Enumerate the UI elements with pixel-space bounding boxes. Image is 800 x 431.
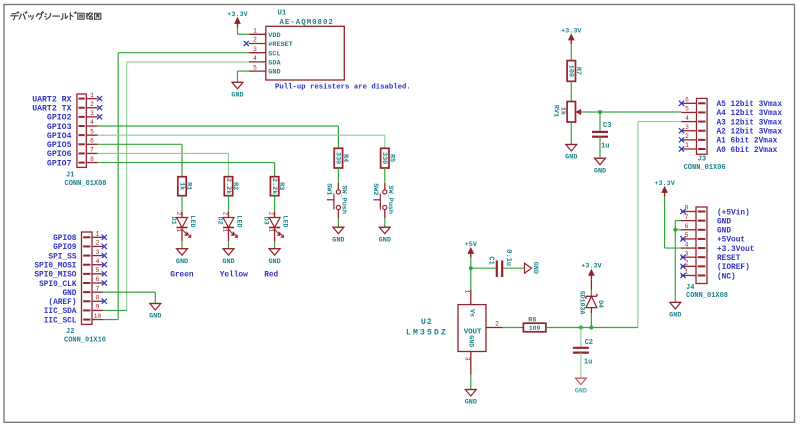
svg-text:3: 3 bbox=[253, 46, 257, 53]
svg-text:R2: R2 bbox=[231, 182, 239, 190]
svg-text:6: 6 bbox=[90, 138, 94, 145]
svg-text:J1: J1 bbox=[66, 172, 74, 180]
svg-text:C1: C1 bbox=[486, 256, 494, 264]
svg-text:GPIO8: GPIO8 bbox=[53, 235, 77, 243]
svg-text:GND: GND bbox=[594, 167, 606, 175]
svg-text:8: 8 bbox=[685, 205, 689, 212]
svg-text:1: 1 bbox=[96, 231, 100, 238]
svg-text:2: 2 bbox=[495, 320, 499, 327]
svg-text:CONN_01X08: CONN_01X08 bbox=[65, 180, 107, 188]
svg-text:5: 5 bbox=[96, 267, 100, 274]
svg-text:5: 5 bbox=[90, 128, 94, 135]
svg-text:GPIO4: GPIO4 bbox=[47, 132, 72, 141]
svg-text:IIC_SDA: IIC_SDA bbox=[44, 308, 77, 316]
svg-text:SPI0_CLK: SPI0_CLK bbox=[39, 281, 77, 289]
svg-text:(NC): (NC) bbox=[717, 273, 736, 281]
svg-text:6: 6 bbox=[685, 97, 689, 104]
svg-text:GND: GND bbox=[149, 313, 161, 321]
svg-text:A0 6bit 2Vmax: A0 6bit 2Vmax bbox=[717, 147, 778, 155]
svg-text:GND: GND bbox=[717, 228, 731, 236]
svg-text:C2: C2 bbox=[585, 339, 593, 347]
svg-text:SDA: SDA bbox=[268, 60, 281, 68]
svg-text:1u: 1u bbox=[601, 143, 609, 151]
svg-text:SPI0_MISO: SPI0_MISO bbox=[34, 272, 76, 280]
svg-text:CONN_01X10: CONN_01X10 bbox=[64, 337, 106, 345]
svg-text:2: 2 bbox=[685, 133, 689, 140]
svg-text:AE-AQM0802: AE-AQM0802 bbox=[280, 19, 334, 27]
svg-text:Yellow: Yellow bbox=[220, 272, 248, 280]
svg-text:4: 4 bbox=[96, 258, 100, 265]
svg-text:J3: J3 bbox=[698, 155, 706, 163]
svg-text:GND: GND bbox=[62, 290, 76, 298]
svg-text:A4 12bit 3Vmax: A4 12bit 3Vmax bbox=[717, 110, 783, 118]
svg-text:GND: GND bbox=[669, 312, 681, 320]
svg-text:R5: R5 bbox=[387, 154, 395, 162]
svg-text:330: 330 bbox=[380, 152, 388, 164]
svg-text:D3: D3 bbox=[261, 217, 269, 225]
svg-text:1u: 1u bbox=[584, 359, 592, 367]
svg-text:2: 2 bbox=[253, 37, 257, 44]
svg-text:(AREF): (AREF) bbox=[48, 299, 76, 307]
svg-text:100: 100 bbox=[529, 325, 541, 332]
svg-text:SD103A: SD103A bbox=[578, 291, 585, 315]
svg-text:IIC_SCL: IIC_SCL bbox=[44, 317, 77, 325]
svg-text:GND: GND bbox=[268, 69, 280, 77]
svg-text:100: 100 bbox=[567, 65, 575, 77]
svg-text:R7: R7 bbox=[574, 67, 582, 75]
svg-text:5: 5 bbox=[685, 232, 689, 239]
svg-text:GND: GND bbox=[717, 218, 731, 226]
svg-text:GPIO5: GPIO5 bbox=[47, 141, 72, 150]
svg-text:GND: GND bbox=[268, 258, 280, 266]
svg-text:8: 8 bbox=[96, 294, 100, 301]
svg-text:1: 1 bbox=[464, 290, 471, 294]
svg-text:R6: R6 bbox=[528, 317, 536, 325]
svg-text:R3: R3 bbox=[277, 182, 285, 190]
svg-text:A3 12bit 3Vmax: A3 12bit 3Vmax bbox=[717, 119, 783, 127]
svg-text:R4: R4 bbox=[341, 154, 349, 162]
svg-text:UART2 TX: UART2 TX bbox=[32, 105, 71, 114]
svg-text:U2: U2 bbox=[421, 318, 433, 327]
svg-text:D4: D4 bbox=[597, 300, 604, 308]
svg-text:+3.3V: +3.3V bbox=[581, 263, 602, 271]
svg-text:VDD: VDD bbox=[268, 32, 280, 40]
svg-text:8: 8 bbox=[90, 156, 94, 163]
svg-text:Pull-up resisters are disabled: Pull-up resisters are disabled. bbox=[275, 84, 411, 92]
svg-text:+5V: +5V bbox=[465, 241, 478, 249]
svg-text:3: 3 bbox=[464, 357, 471, 361]
svg-text:1: 1 bbox=[90, 92, 94, 99]
svg-text:D2: D2 bbox=[215, 217, 223, 225]
svg-text:SW_Push: SW_Push bbox=[340, 185, 348, 214]
svg-text:+3.3V: +3.3V bbox=[654, 180, 675, 188]
svg-text:R1: R1 bbox=[185, 182, 193, 190]
svg-text:(IOREF): (IOREF) bbox=[717, 264, 750, 272]
svg-text:C3: C3 bbox=[603, 122, 611, 130]
svg-text:2: 2 bbox=[221, 212, 228, 216]
svg-text:3: 3 bbox=[96, 249, 100, 256]
svg-text:#RESET: #RESET bbox=[268, 41, 292, 49]
svg-text:5: 5 bbox=[253, 64, 257, 71]
svg-text:7: 7 bbox=[96, 285, 100, 292]
svg-text:A2 12bit 3Vmax: A2 12bit 3Vmax bbox=[717, 129, 783, 137]
svg-text:GPIO2: GPIO2 bbox=[47, 114, 72, 123]
svg-text:4: 4 bbox=[90, 119, 94, 126]
svg-text:1: 1 bbox=[685, 142, 689, 149]
svg-text:4: 4 bbox=[685, 115, 689, 122]
svg-text:2: 2 bbox=[685, 260, 689, 267]
svg-text:GND: GND bbox=[231, 92, 243, 100]
svg-text:J4: J4 bbox=[686, 284, 694, 292]
svg-text:RESET: RESET bbox=[717, 255, 741, 263]
svg-text:10: 10 bbox=[94, 313, 102, 320]
svg-text:SW_Push: SW_Push bbox=[386, 185, 394, 214]
svg-text:UART2 RX: UART2 RX bbox=[32, 95, 71, 104]
svg-text:GPIO9: GPIO9 bbox=[53, 244, 77, 252]
svg-text:2: 2 bbox=[175, 212, 182, 216]
svg-text:1k: 1k bbox=[558, 107, 566, 115]
svg-text:+3.3Vout: +3.3Vout bbox=[717, 246, 754, 254]
svg-text:0.1u: 0.1u bbox=[504, 249, 512, 266]
svg-text:GND: GND bbox=[465, 399, 477, 407]
svg-text:A5 12bit 3Vmax: A5 12bit 3Vmax bbox=[717, 101, 783, 109]
svg-text:GPIO6: GPIO6 bbox=[47, 150, 72, 159]
svg-text:GND: GND bbox=[379, 236, 391, 244]
svg-text:6: 6 bbox=[96, 276, 100, 283]
svg-text:2: 2 bbox=[96, 240, 100, 247]
svg-text:GND: GND bbox=[575, 387, 587, 395]
svg-text:(+5Vin): (+5Vin) bbox=[717, 209, 750, 217]
svg-text:3: 3 bbox=[685, 124, 689, 131]
svg-text:2: 2 bbox=[267, 212, 274, 216]
svg-text:LED: LED bbox=[188, 215, 196, 227]
svg-text:SPI_SS: SPI_SS bbox=[48, 253, 76, 261]
svg-text:GND: GND bbox=[531, 262, 539, 274]
svg-text:GND: GND bbox=[468, 335, 475, 347]
svg-text:LM35DZ: LM35DZ bbox=[406, 328, 448, 337]
svg-text:J2: J2 bbox=[66, 328, 74, 336]
svg-text:U1: U1 bbox=[278, 10, 287, 18]
svg-text:1k: 1k bbox=[177, 182, 185, 190]
svg-text:3: 3 bbox=[90, 110, 94, 117]
svg-text:GND: GND bbox=[222, 258, 234, 266]
svg-text:1: 1 bbox=[685, 269, 689, 276]
svg-text:GND: GND bbox=[565, 154, 577, 162]
svg-text:A1 6bit 2Vmax: A1 6bit 2Vmax bbox=[717, 138, 778, 146]
svg-text:SW2: SW2 bbox=[371, 183, 379, 195]
svg-text:GND: GND bbox=[332, 236, 344, 244]
svg-text:GPIO7: GPIO7 bbox=[47, 159, 72, 168]
svg-text:D1: D1 bbox=[169, 217, 177, 225]
svg-text:7: 7 bbox=[685, 214, 689, 221]
svg-text:Green: Green bbox=[170, 272, 194, 280]
svg-text:2: 2 bbox=[90, 101, 94, 108]
svg-text:6: 6 bbox=[685, 223, 689, 230]
svg-text:1: 1 bbox=[267, 228, 274, 232]
svg-text:GPIO3: GPIO3 bbox=[47, 123, 72, 132]
svg-text:SCL: SCL bbox=[268, 50, 280, 58]
svg-text:9: 9 bbox=[96, 304, 100, 311]
svg-text:7: 7 bbox=[90, 147, 94, 154]
svg-text:4: 4 bbox=[253, 55, 257, 62]
svg-text:Vs: Vs bbox=[468, 309, 475, 317]
svg-text:3: 3 bbox=[685, 250, 689, 257]
svg-text:1: 1 bbox=[221, 228, 228, 232]
svg-text:+3.3V: +3.3V bbox=[227, 11, 248, 19]
svg-text:+5Vout: +5Vout bbox=[717, 237, 745, 245]
svg-text:CONN_01X06: CONN_01X06 bbox=[684, 164, 726, 172]
svg-text:SPI0_MOSI: SPI0_MOSI bbox=[34, 263, 76, 271]
svg-text:5: 5 bbox=[685, 106, 689, 113]
svg-text:LED: LED bbox=[234, 215, 242, 227]
svg-text:4: 4 bbox=[685, 241, 689, 248]
svg-text:CONN_01X08: CONN_01X08 bbox=[686, 292, 728, 300]
svg-text:GND: GND bbox=[176, 258, 188, 266]
svg-text:1: 1 bbox=[175, 228, 182, 232]
svg-text:LED: LED bbox=[280, 215, 288, 227]
svg-text:+3.3V: +3.3V bbox=[561, 27, 582, 35]
svg-text:Red: Red bbox=[264, 272, 278, 280]
svg-text:SW1: SW1 bbox=[324, 183, 332, 195]
svg-text:330: 330 bbox=[334, 152, 342, 164]
svg-text:2.2k: 2.2k bbox=[270, 178, 278, 194]
svg-text:1: 1 bbox=[253, 28, 257, 35]
svg-text:2.2k: 2.2k bbox=[224, 178, 232, 194]
